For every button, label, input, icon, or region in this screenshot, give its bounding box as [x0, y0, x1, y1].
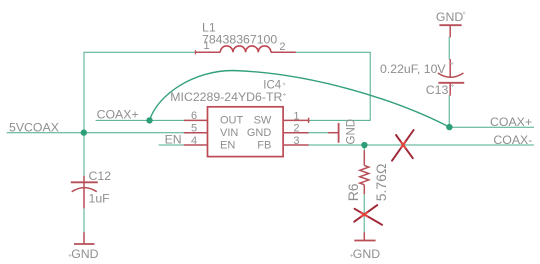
svg-text:C12: C12: [89, 169, 112, 183]
svg-text:FB: FB: [257, 140, 271, 152]
svg-text:MIC2289-24YD6-TR: MIC2289-24YD6-TR: [170, 90, 282, 104]
svg-text:5: 5: [191, 123, 197, 135]
svg-text:0.22uF, 10V: 0.22uF, 10V: [380, 62, 446, 76]
svg-text:6: 6: [191, 110, 197, 122]
svg-text:GND: GND: [436, 10, 463, 24]
svg-text:GND: GND: [346, 119, 358, 145]
svg-text:2: 2: [293, 123, 299, 135]
svg-text:GND: GND: [353, 247, 380, 261]
svg-text:EN: EN: [165, 133, 182, 147]
svg-text:SW: SW: [254, 115, 272, 127]
svg-text:C13: C13: [426, 83, 449, 97]
svg-text:COAX-: COAX-: [493, 133, 532, 147]
svg-text:5VCOAX: 5VCOAX: [9, 121, 59, 135]
svg-text:COAX+: COAX+: [490, 115, 532, 129]
svg-text:5.76Ω: 5.76Ω: [373, 164, 389, 202]
svg-text:1uF: 1uF: [89, 192, 111, 206]
svg-text:4: 4: [191, 135, 197, 147]
svg-text:EN: EN: [220, 140, 235, 152]
svg-text:1: 1: [293, 110, 299, 122]
svg-text:78438367100: 78438367100: [202, 32, 277, 46]
svg-text:OUT: OUT: [220, 115, 244, 127]
svg-text:VIN: VIN: [220, 127, 238, 139]
svg-text:3: 3: [293, 135, 299, 147]
svg-text:R6: R6: [345, 183, 361, 201]
svg-text:COAX+: COAX+: [97, 108, 139, 122]
svg-text:GND: GND: [247, 127, 272, 139]
svg-text:GND: GND: [71, 247, 98, 261]
svg-text:1: 1: [204, 40, 210, 52]
svg-text:2: 2: [279, 41, 285, 53]
